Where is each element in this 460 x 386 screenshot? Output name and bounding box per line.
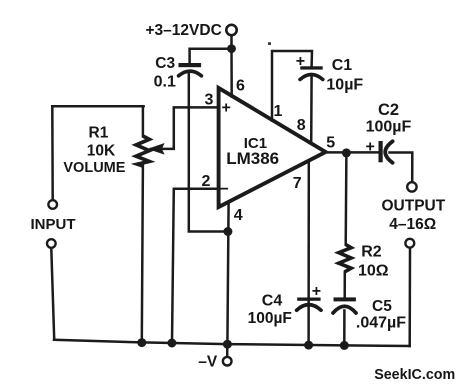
wire: +V terminal stub bbox=[230, 35, 233, 49]
svg-text:C5: C5 bbox=[372, 298, 392, 315]
resistor R2 zigzag bbox=[339, 245, 352, 272]
svg-text:LM386: LM386 bbox=[226, 149, 279, 168]
svg-text:100µF: 100µF bbox=[366, 119, 412, 136]
wire: R1 vertical above zigzag bbox=[142, 106, 145, 136]
svg-text:10µF: 10µF bbox=[326, 77, 363, 94]
svg-text:+: + bbox=[366, 138, 375, 155]
svg-text:C4: C4 bbox=[262, 293, 283, 310]
svg-text:100µF: 100µF bbox=[248, 310, 292, 327]
wire: pin 5 to C2 left bbox=[326, 151, 380, 154]
svg-text:–V: –V bbox=[198, 354, 218, 371]
junction: rail at pin 2 wire bbox=[167, 339, 176, 348]
svg-text:−: − bbox=[220, 181, 229, 198]
svg-text:0.1: 0.1 bbox=[154, 73, 176, 90]
wire: +V junction to pin 6 bbox=[230, 49, 233, 97]
junction: rail at C4 bbox=[304, 341, 313, 350]
junction: pin 5 node bbox=[342, 148, 351, 157]
svg-text:C1: C1 bbox=[332, 57, 353, 74]
wire: R1 top horizontal bbox=[52, 105, 143, 108]
svg-text:+: + bbox=[222, 99, 231, 116]
terminal: OUTPUT lower bbox=[405, 239, 414, 248]
svg-text:C2: C2 bbox=[378, 101, 399, 119]
svg-text:6: 6 bbox=[236, 77, 245, 94]
svg-text:5: 5 bbox=[326, 134, 335, 151]
wire: pin 2 line and down to rail bbox=[172, 189, 216, 343]
capacitor C5 bbox=[333, 297, 356, 313]
svg-text:+3–12VDC: +3–12VDC bbox=[146, 22, 222, 39]
wire: pin 1 up and over to C1 bbox=[272, 51, 312, 121]
wire: C5 bottom to rail bbox=[343, 311, 346, 346]
wire: bottom ground rail bbox=[54, 340, 410, 346]
wire: OUTPUT lower terminal down to rail corner bbox=[408, 248, 411, 346]
wire: C2 right to OUTPUT upper terminal bbox=[390, 153, 413, 182]
wire: -V stub below rail bbox=[226, 345, 229, 357]
junction: rail at C5 bbox=[340, 341, 349, 350]
junction: pin 4 / C3 node bbox=[223, 227, 232, 236]
svg-text:VOLUME: VOLUME bbox=[63, 160, 125, 176]
capacitor C2 bbox=[379, 141, 393, 163]
wire: R1 left vertical to INPUT upper terminal bbox=[51, 106, 54, 199]
wire: pin 7 down through C4 to rail bbox=[307, 161, 310, 345]
resistor R1 zigzag (potentiometer) bbox=[136, 136, 149, 166]
svg-text:2: 2 bbox=[202, 173, 211, 190]
svg-text:+: + bbox=[312, 283, 321, 300]
svg-text:INPUT: INPUT bbox=[31, 216, 76, 233]
svg-text:.047µF: .047µF bbox=[356, 314, 406, 331]
svg-text:8: 8 bbox=[297, 117, 306, 134]
speckle near C1 box corner bbox=[268, 42, 271, 45]
svg-text:+: + bbox=[296, 53, 305, 70]
svg-text:4: 4 bbox=[234, 207, 243, 224]
potentiometer wiper arrowhead bbox=[150, 144, 164, 153]
wire: INPUT lower terminal down to ground rail bbox=[51, 249, 54, 339]
svg-text:SeekIC.com: SeekIC.com bbox=[374, 367, 455, 383]
junction: +V node bbox=[227, 44, 236, 53]
wire: C3 bottom down and right to pin4 junction bbox=[189, 74, 228, 232]
svg-text:10K: 10K bbox=[87, 143, 116, 160]
wire: pin 4 down to rail bbox=[227, 202, 228, 344]
junction: rail at -V bbox=[223, 340, 232, 349]
svg-text:OUTPUT: OUTPUT bbox=[382, 197, 446, 214]
capacitor C4 bbox=[297, 298, 321, 311]
svg-text:C3: C3 bbox=[155, 55, 175, 72]
svg-text:4–16Ω: 4–16Ω bbox=[389, 216, 436, 233]
capacitor C3 bbox=[179, 63, 202, 76]
wire: +V junction left to C3 bbox=[190, 49, 232, 65]
svg-text:R1: R1 bbox=[89, 124, 109, 141]
svg-text:7: 7 bbox=[293, 175, 302, 192]
terminal: OUTPUT upper bbox=[407, 182, 416, 191]
terminal: INPUT lower bbox=[47, 239, 56, 248]
wire: R1 below zigzag to rail bbox=[142, 166, 143, 343]
terminal: INPUT upper bbox=[48, 200, 57, 209]
terminal: +3-12VDC bbox=[226, 25, 236, 35]
svg-text:10Ω: 10Ω bbox=[358, 262, 389, 279]
terminal: -V bbox=[223, 357, 232, 366]
wire: R2 bottom to C5 top bbox=[343, 272, 346, 299]
wire: pin5 junction down to R2 bbox=[344, 153, 347, 245]
svg-text:1: 1 bbox=[274, 103, 283, 120]
wire: C1 bottom to pin 8 bbox=[310, 75, 313, 144]
svg-text:R2: R2 bbox=[361, 244, 382, 261]
capacitor C1 bbox=[300, 66, 323, 79]
op-amp U1 triangle bbox=[219, 88, 326, 207]
junction: rail at R1 bbox=[137, 338, 146, 347]
wire: pot wiper to pin 3 bbox=[151, 107, 218, 148]
svg-text:3: 3 bbox=[205, 91, 214, 108]
